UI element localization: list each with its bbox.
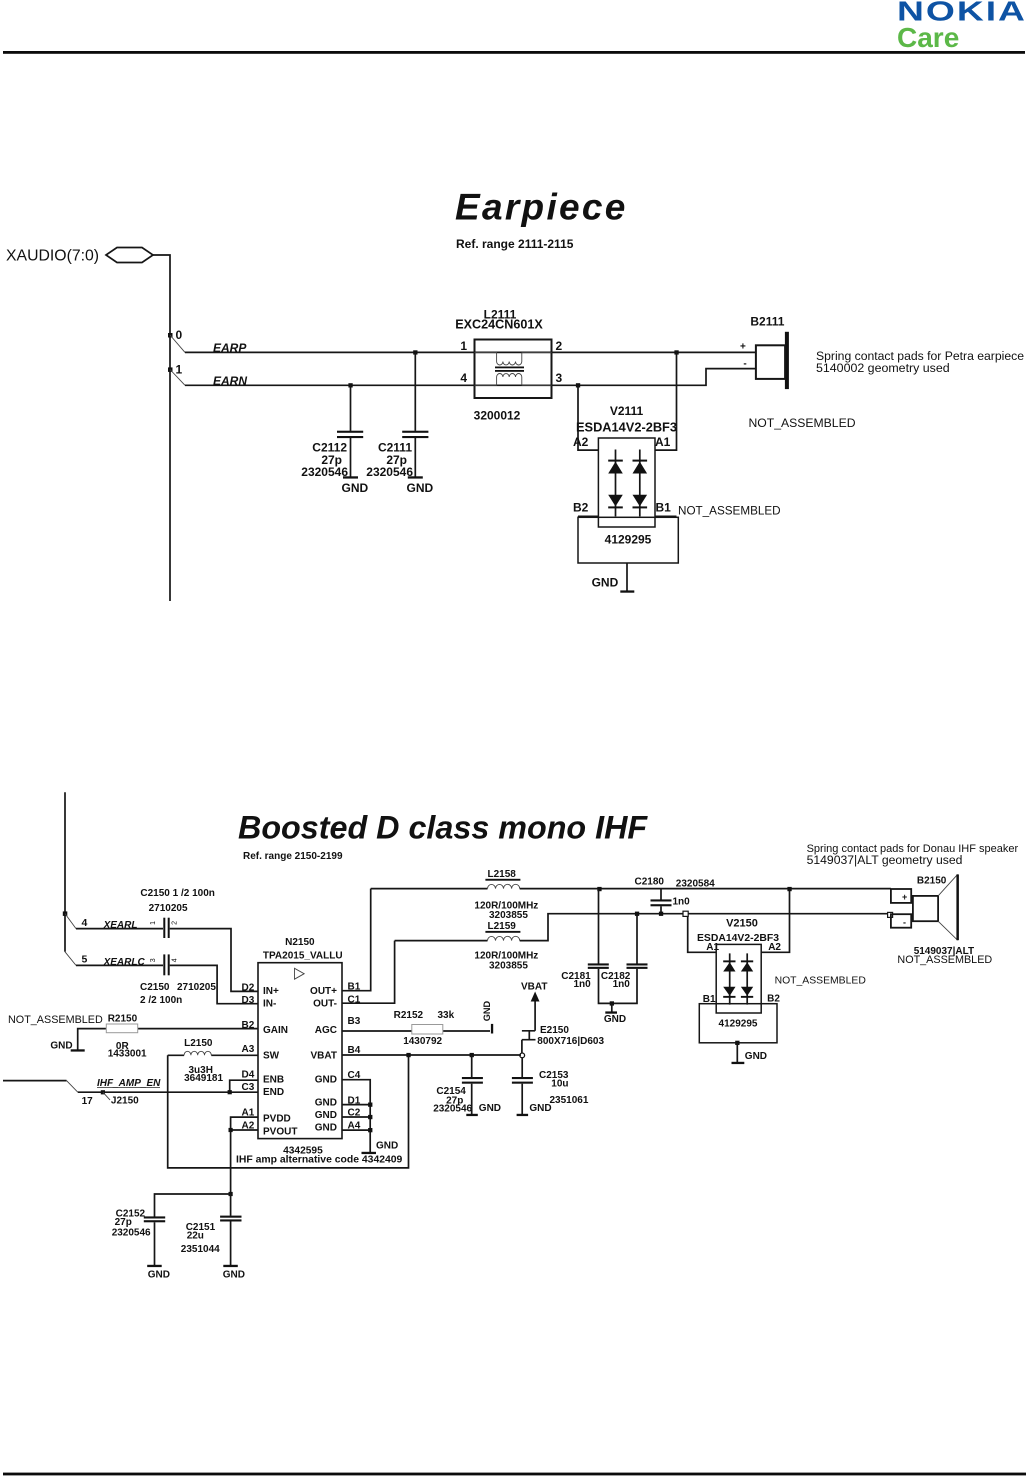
svg-text:Care: Care	[897, 22, 959, 53]
svg-text:2320546: 2320546	[301, 465, 348, 479]
svg-text:A2: A2	[768, 942, 781, 953]
svg-text:IHF amp alternative code 43424: IHF amp alternative code 4342409	[236, 1155, 403, 1166]
svg-text:L2150: L2150	[184, 1038, 213, 1049]
svg-text:NOT_ASSEMBLED: NOT_ASSEMBLED	[775, 975, 866, 986]
svg-text:EARN: EARN	[213, 374, 247, 388]
svg-text:D4: D4	[242, 1070, 255, 1081]
svg-text:E2150: E2150	[540, 1025, 569, 1036]
svg-text:TPA2015_VALLU: TPA2015_VALLU	[263, 951, 343, 962]
svg-text:C2150 1 /2 100n: C2150 1 /2 100n	[140, 888, 215, 899]
svg-text:GND: GND	[342, 481, 369, 495]
svg-text:GND: GND	[529, 1103, 551, 1114]
svg-text:B1: B1	[656, 500, 672, 514]
svg-text:+: +	[740, 342, 746, 353]
svg-text:A3: A3	[242, 1044, 255, 1055]
svg-text:GND: GND	[223, 1269, 245, 1280]
svg-text:GND: GND	[315, 1075, 337, 1086]
svg-text:22u: 22u	[187, 1230, 204, 1241]
svg-text:17: 17	[82, 1096, 94, 1107]
svg-text:B2150: B2150	[917, 875, 947, 886]
svg-text:B3: B3	[348, 1016, 361, 1027]
svg-text:IN+: IN+	[263, 986, 279, 997]
svg-text:GND: GND	[315, 1110, 337, 1121]
svg-text:Ref. range 2150-2199: Ref. range 2150-2199	[243, 851, 343, 862]
svg-text:800X716|D603: 800X716|D603	[537, 1036, 604, 1047]
svg-text:2320546: 2320546	[366, 465, 413, 479]
svg-text:-: -	[903, 918, 906, 928]
svg-text:J2150: J2150	[111, 1096, 139, 1107]
svg-text:AGC: AGC	[315, 1025, 337, 1036]
svg-text:A1: A1	[242, 1107, 255, 1118]
svg-text:+: +	[902, 892, 907, 902]
svg-text:EXC24CN601X: EXC24CN601X	[455, 318, 543, 332]
svg-text:4: 4	[82, 917, 88, 929]
svg-text:1433001: 1433001	[108, 1049, 147, 1060]
svg-text:2710205: 2710205	[149, 903, 188, 914]
svg-text:2351044: 2351044	[181, 1244, 220, 1255]
svg-text:IN-: IN-	[263, 999, 276, 1010]
svg-text:2: 2	[556, 339, 563, 353]
svg-text:3203855: 3203855	[489, 910, 528, 921]
svg-text:A2: A2	[242, 1120, 255, 1131]
svg-text:GND: GND	[376, 1140, 398, 1151]
svg-text:GND: GND	[148, 1269, 170, 1280]
svg-text:GND: GND	[604, 1014, 626, 1025]
svg-text:OUT-: OUT-	[313, 999, 337, 1010]
svg-text:SW: SW	[263, 1050, 280, 1061]
svg-text:5140002 geometry used: 5140002 geometry used	[816, 361, 950, 375]
svg-text:4129295: 4129295	[719, 1019, 758, 1030]
svg-text:B2: B2	[573, 500, 589, 514]
svg-text:3203855: 3203855	[489, 960, 528, 971]
svg-text:A1: A1	[655, 435, 671, 449]
svg-text:D3: D3	[242, 995, 255, 1006]
svg-text:4129295: 4129295	[605, 533, 652, 547]
svg-text:1: 1	[460, 339, 467, 353]
svg-text:Boosted D class mono IHF: Boosted D class mono IHF	[238, 810, 648, 846]
svg-text:GND: GND	[482, 1001, 492, 1022]
svg-text:1: 1	[176, 363, 183, 377]
svg-text:END: END	[263, 1087, 284, 1098]
svg-text:XEARL: XEARL	[103, 920, 138, 931]
svg-text:1430792: 1430792	[403, 1036, 442, 1047]
svg-text:3: 3	[150, 958, 157, 962]
svg-text:XAUDIO(7:0): XAUDIO(7:0)	[6, 248, 99, 265]
svg-text:0: 0	[176, 328, 183, 342]
svg-text:5: 5	[82, 954, 88, 966]
svg-text:1n0: 1n0	[613, 979, 631, 990]
svg-text:27p: 27p	[115, 1217, 132, 1228]
svg-text:V2150: V2150	[726, 918, 758, 930]
svg-text:N2150: N2150	[285, 937, 315, 948]
svg-text:2710205: 2710205	[177, 982, 216, 993]
svg-text:2: 2	[172, 921, 179, 925]
svg-text:R2152: R2152	[394, 1010, 424, 1021]
svg-text:PVDD: PVDD	[263, 1114, 291, 1125]
svg-text:PVOUT: PVOUT	[263, 1127, 297, 1138]
svg-text:GND: GND	[745, 1051, 767, 1062]
svg-text:B2: B2	[242, 1020, 255, 1031]
svg-text:A1: A1	[706, 942, 719, 953]
svg-text:R2150: R2150	[108, 1013, 138, 1024]
svg-text:GND: GND	[315, 1097, 337, 1108]
svg-text:GND: GND	[592, 575, 619, 589]
svg-text:C2180: C2180	[635, 877, 665, 888]
svg-text:Ref. range 2111-2115: Ref. range 2111-2115	[456, 237, 574, 251]
svg-text:D2: D2	[242, 982, 255, 993]
svg-text:GND: GND	[315, 1123, 337, 1134]
svg-text:OUT+: OUT+	[310, 986, 337, 997]
svg-text:GND: GND	[479, 1103, 501, 1114]
svg-text:EARP: EARP	[213, 341, 247, 355]
svg-text:A2: A2	[573, 435, 589, 449]
svg-text:3: 3	[556, 371, 563, 385]
svg-text:L2159: L2159	[488, 921, 517, 932]
svg-text:5149037|ALT geometry used: 5149037|ALT geometry used	[807, 853, 963, 867]
svg-text:3200012: 3200012	[474, 408, 521, 422]
svg-text:1n0: 1n0	[573, 979, 591, 990]
svg-text:VBAT: VBAT	[521, 982, 547, 993]
svg-text:2320546: 2320546	[112, 1228, 151, 1239]
svg-text:V2111: V2111	[610, 404, 644, 418]
svg-text:ESDA14V2-2BF3: ESDA14V2-2BF3	[576, 420, 677, 435]
svg-text:C2150: C2150	[140, 982, 170, 993]
svg-text:2351061: 2351061	[550, 1095, 589, 1106]
svg-text:VBAT: VBAT	[311, 1050, 337, 1061]
svg-text:NOT_ASSEMBLED: NOT_ASSEMBLED	[8, 1014, 103, 1026]
svg-text:ENB: ENB	[263, 1075, 284, 1086]
svg-text:33k: 33k	[438, 1010, 455, 1021]
svg-text:B2111: B2111	[750, 315, 784, 329]
svg-text:1n0: 1n0	[673, 897, 691, 908]
svg-text:NOT_ASSEMBLED: NOT_ASSEMBLED	[678, 504, 781, 517]
svg-text:Earpiece: Earpiece	[455, 187, 628, 228]
svg-text:4: 4	[172, 958, 179, 962]
svg-text:-: -	[743, 359, 746, 370]
svg-text:2320584: 2320584	[676, 878, 715, 889]
svg-text:GND: GND	[50, 1041, 72, 1052]
svg-text:GND: GND	[407, 481, 434, 495]
svg-text:3649181: 3649181	[184, 1073, 223, 1084]
svg-text:GAIN: GAIN	[263, 1025, 288, 1036]
svg-text:C3: C3	[242, 1082, 255, 1093]
svg-text:1: 1	[150, 921, 157, 925]
svg-text:NOT_ASSEMBLED: NOT_ASSEMBLED	[897, 954, 992, 966]
svg-text:10u: 10u	[551, 1078, 568, 1089]
svg-text:NOT_ASSEMBLED: NOT_ASSEMBLED	[749, 416, 856, 430]
svg-text:4: 4	[460, 371, 467, 385]
svg-text:2 /2 100n: 2 /2 100n	[140, 995, 182, 1006]
svg-text:L2158: L2158	[488, 869, 517, 880]
svg-text:XEARLC: XEARLC	[103, 957, 146, 968]
svg-text:B2: B2	[767, 993, 780, 1004]
svg-text:2320546: 2320546	[433, 1103, 472, 1114]
